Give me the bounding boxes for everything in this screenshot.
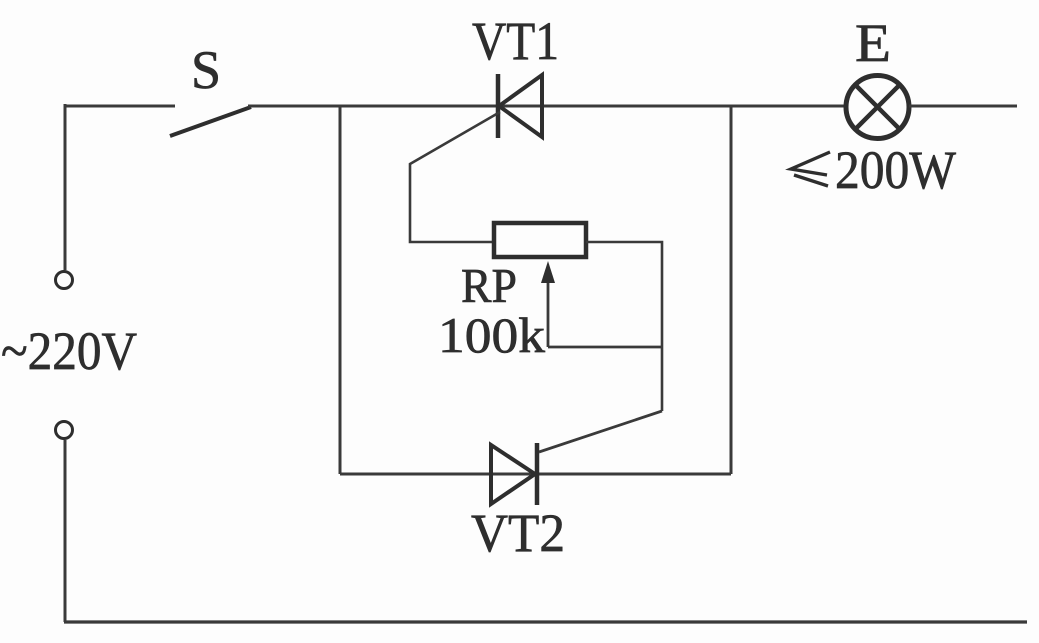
- thyristor VT1 cathode bar: [496, 74, 501, 138]
- wire left vertical from lower terminal: [64, 440, 67, 622]
- lamp E circle: [846, 76, 909, 139]
- svg-text:VT1: VT1: [472, 11, 559, 71]
- wire wiper to right rail: [548, 346, 662, 349]
- wire lamp to right end: [909, 105, 1017, 108]
- svg-text:200W: 200W: [835, 140, 956, 200]
- wire loop bottom horizontal: [340, 473, 731, 476]
- wire left vertical to upper terminal: [64, 104, 67, 270]
- wire VT2 gate diagonal: [539, 411, 662, 452]
- potentiometer RP body: [494, 223, 586, 257]
- wire top-left horizontal from source to switch: [64, 105, 175, 108]
- svg-text:VT2: VT2: [471, 503, 565, 563]
- svg-text:~220V: ~220V: [1, 321, 137, 381]
- switch S blade: [170, 107, 251, 136]
- thyristor VT2 triangle: [491, 445, 535, 504]
- wire RP right lead: [586, 242, 662, 411]
- svg-text:S: S: [191, 40, 221, 100]
- svg-text:RP: RP: [461, 258, 517, 313]
- wire top horizontal switch to lamp: [248, 105, 844, 108]
- lamp E cross: [856, 86, 899, 129]
- wire RP wiper stem: [547, 274, 550, 347]
- thyristor VT2 cathode bar: [535, 443, 540, 505]
- wire bottom horizontal: [64, 620, 1027, 623]
- RP wiper arrowhead: [541, 261, 555, 283]
- thyristor VT1 triangle: [499, 75, 542, 137]
- wire VT1 gate: [410, 112, 500, 242]
- wire loop left vertical: [339, 106, 342, 474]
- svg-text:E: E: [855, 13, 891, 73]
- svg-text:100k: 100k: [438, 307, 545, 363]
- less-than-or-equal symbol: [791, 152, 830, 186]
- terminal upper: [56, 272, 73, 289]
- terminal lower: [56, 422, 73, 439]
- wire loop right vertical: [730, 106, 733, 474]
